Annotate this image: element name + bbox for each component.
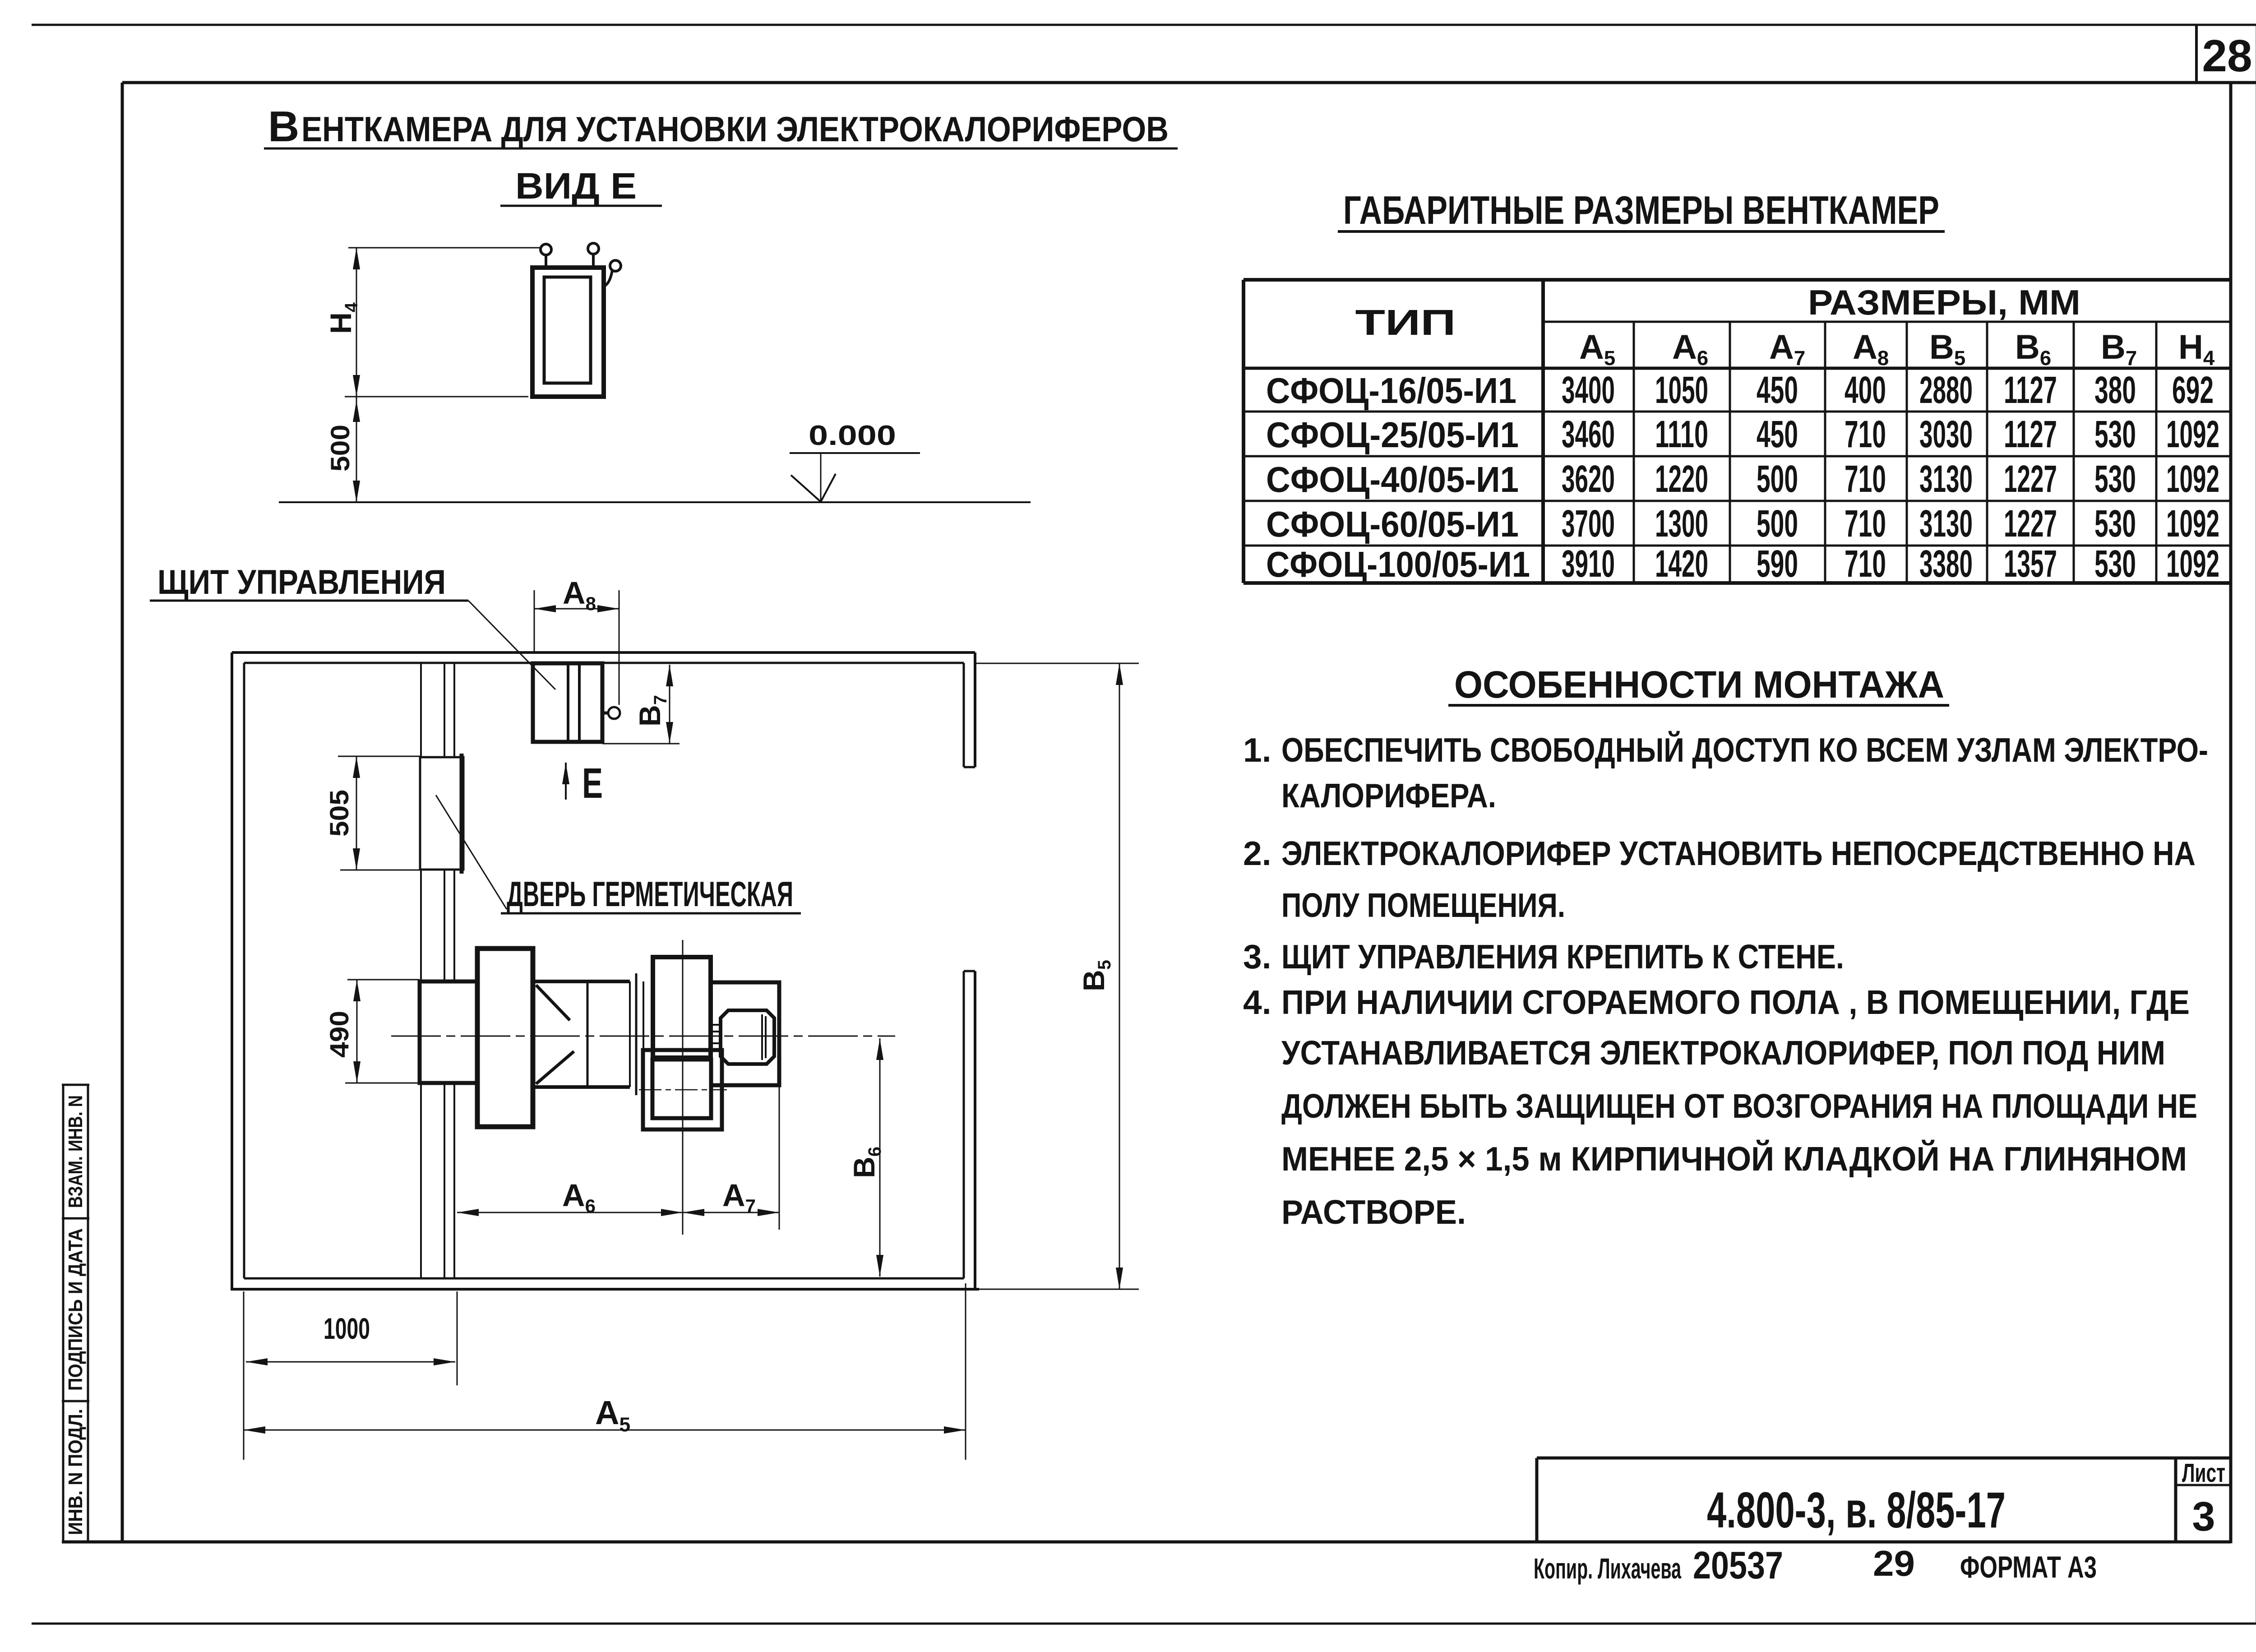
svg-text:3.: 3. (1243, 938, 1271, 976)
svg-text:450: 450 (1757, 413, 1798, 455)
control shield door knob (602, 712, 609, 715)
svg-text:ЭЛЕКТРОКАЛОРИФЕР УСТАНОВИТЬ: ЭЛЕКТРОКАЛОРИФЕР УСТАНОВИТЬ НЕПОСРЕДСТВЕ… (1281, 834, 2196, 872)
svg-text:1357: 1357 (2004, 542, 2057, 585)
svg-text:1420: 1420 (1655, 542, 1708, 585)
heater body bottom line (533, 1085, 630, 1089)
svg-text:590: 590 (1757, 542, 1798, 585)
svg-text:Копир. Лихачева: Копир. Лихачева (1534, 1552, 1681, 1585)
svg-text:710: 710 (1845, 542, 1886, 585)
dimension A5 right extension (965, 1283, 966, 1460)
fan inlet box (653, 957, 711, 1058)
main drawing frame (122, 81, 2256, 84)
svg-text:3620: 3620 (1562, 458, 1615, 500)
svg-text:490: 490 (325, 1011, 354, 1058)
svg-text:710: 710 (1845, 502, 1886, 545)
svg-text:500: 500 (1757, 502, 1798, 545)
dimension B5 line (1119, 663, 1120, 1289)
svg-text:1092: 1092 (2166, 458, 2219, 500)
dimension A5 line (244, 1430, 966, 1431)
svg-text:500: 500 (1757, 458, 1798, 500)
svg-text:1092: 1092 (2166, 542, 2219, 585)
control shield box (533, 663, 602, 742)
heater body top line (533, 980, 630, 983)
svg-text:1.: 1. (1243, 731, 1271, 769)
svg-text:МЕНЕЕ 2,5 × 1,5 м КИРПИЧНОЙ: МЕНЕЕ 2,5 × 1,5 м КИРПИЧНОЙ КЛАДКОЙ НА Г… (1281, 1140, 2187, 1178)
main title underline (264, 148, 1178, 150)
svg-text:1220: 1220 (1655, 458, 1708, 500)
title block list cell divider vertical (2174, 1458, 2177, 1542)
top wall outer line (232, 651, 975, 654)
heater diagonal mark upper (536, 985, 570, 1020)
svg-text:4.: 4. (1243, 983, 1271, 1021)
svg-text:2880: 2880 (1919, 369, 1973, 411)
svg-text:Е: Е (582, 759, 603, 807)
svg-text:ДВЕРЬ ГЕРМЕТИЧЕСКАЯ: ДВЕРЬ ГЕРМЕТИЧЕСКАЯ (507, 874, 793, 914)
svg-text:ЩИТ УПРАВЛЕНИЯ: ЩИТ УПРАВЛЕНИЯ (157, 563, 446, 602)
svg-text:1127: 1127 (2004, 413, 2057, 455)
dimension 490 extension bottom (345, 1083, 420, 1084)
shield label underline (150, 600, 468, 602)
elevation mark arrow V (791, 474, 836, 502)
svg-text:3910: 3910 (1562, 542, 1615, 585)
svg-text:500: 500 (326, 425, 355, 472)
svg-text:400: 400 (1845, 369, 1886, 411)
svg-text:1000: 1000 (324, 1312, 370, 1345)
dimension 1000 left extension (243, 1291, 245, 1460)
svg-text:20537: 20537 (1693, 1544, 1783, 1587)
svg-text:3: 3 (2192, 1494, 2215, 1540)
svg-text:ЩИТ УПРАВЛЕНИЯ КРЕПИТЬ К С: ЩИТ УПРАВЛЕНИЯ КРЕПИТЬ К СТЕНЕ. (1281, 938, 1844, 976)
svg-text:3130: 3130 (1919, 502, 1973, 545)
shield label leader line (468, 601, 555, 689)
svg-text:2.: 2. (1243, 834, 1271, 872)
fan outlet square centerline (639, 1089, 727, 1091)
cabinet bolt 2 (588, 243, 599, 254)
table outer top border (1244, 278, 2231, 282)
svg-text:29: 29 (1873, 1543, 1915, 1583)
svg-text:В: В (268, 102, 299, 151)
cabinet bolt 1 (541, 244, 551, 255)
svg-text:РАЗМЕРЫ, ММ: РАЗМЕРЫ, ММ (1808, 282, 2080, 322)
svg-text:3400: 3400 (1562, 369, 1615, 411)
svg-text:ДОЛЖЕН БЫТЬ ЗАЩИЩЕН ОТ ВОЗ: ДОЛЖЕН БЫТЬ ЗАЩИЩЕН ОТ ВОЗГОРАНИЯ НА ПЛО… (1281, 1087, 2197, 1125)
table header razmery divider (1543, 321, 2231, 323)
svg-text:0.000: 0.000 (809, 420, 896, 451)
sheet outer border bottom line (32, 1623, 2256, 1625)
svg-text:3460: 3460 (1562, 413, 1615, 455)
inlet flange tall rectangle (477, 949, 533, 1127)
svg-text:530: 530 (2094, 413, 2136, 455)
fan casing box (711, 982, 779, 1085)
svg-text:530: 530 (2094, 542, 2136, 585)
table column divider A6 A7 (1729, 322, 1731, 583)
svg-text:4.800-3, в. 8/85-17: 4.800-3, в. 8/85-17 (1707, 1482, 2006, 1538)
door label underline (501, 912, 801, 915)
dimension 1000 right extension (457, 1291, 458, 1385)
motor mount tabs (711, 1024, 721, 1026)
svg-text:ОСОБЕННОСТИ МОНТАЖА: ОСОБЕННОСТИ МОНТАЖА (1454, 663, 1944, 706)
flexible insert lines (629, 981, 631, 1087)
dimension 505 extension bottom (340, 870, 420, 871)
svg-text:1092: 1092 (2166, 502, 2219, 545)
svg-text:505: 505 (325, 790, 354, 837)
table tip column divider (1541, 280, 1545, 583)
table column divider B5 B6 (1986, 322, 1988, 583)
svg-text:СФОЦ-60/05-И1: СФОЦ-60/05-И1 (1266, 504, 1519, 544)
table column divider A8 B5 (1906, 322, 1908, 583)
left wall inner line (243, 663, 245, 1278)
left wall outer line (231, 652, 233, 1291)
title block list cell divider horizontal (2176, 1484, 2231, 1486)
partition wall middle segment (420, 870, 422, 981)
svg-text:СФОЦ-40/05-И1: СФОЦ-40/05-И1 (1266, 459, 1519, 500)
dimension B5 top extension (975, 663, 1139, 664)
table outer bottom border (1244, 581, 2231, 585)
svg-text:3030: 3030 (1919, 413, 1973, 455)
stamp column box right edge (87, 1085, 89, 1542)
svg-text:ИНВ. N ПОДЛ.: ИНВ. N ПОДЛ. (65, 1409, 87, 1535)
dimension H4 and 500 vertical line (356, 248, 357, 502)
table column divider A7 A8 (1824, 322, 1826, 583)
svg-text:1050: 1050 (1655, 369, 1708, 411)
svg-text:1092: 1092 (2166, 413, 2219, 455)
inlet duct box (420, 981, 478, 1083)
svg-text:692: 692 (2172, 369, 2214, 411)
svg-text:ПОЛУ ПОМЕЩЕНИЯ.: ПОЛУ ПОМЕЩЕНИЯ. (1281, 886, 1565, 924)
floor ground line (279, 501, 1031, 503)
dimension 1000 line (246, 1361, 455, 1363)
svg-text:380: 380 (2094, 369, 2136, 411)
heater diagonal mark lower (536, 1051, 574, 1084)
svg-text:ОБЕСПЕЧИТЬ СВОБОДНЫЙ ДОСТУП: ОБЕСПЕЧИТЬ СВОБОДНЫЙ ДОСТУП КО ВСЕМ УЗЛА… (1281, 731, 2208, 769)
dimension 490 extension top (347, 979, 420, 981)
svg-text:СФОЦ-100/05-И1: СФОЦ-100/05-И1 (1266, 544, 1530, 584)
dimension B6 line (879, 1038, 881, 1277)
table row divider 4 (1244, 545, 2231, 547)
svg-text:710: 710 (1845, 413, 1886, 455)
table title underline (1338, 230, 1945, 233)
dimension 505 extension top (338, 756, 420, 757)
svg-text:ФОРМАТ А3: ФОРМАТ А3 (1960, 1550, 2097, 1584)
table column divider B6 B7 (2073, 322, 2075, 583)
elevation mark leader (820, 453, 822, 501)
stamp column divider 1 (62, 1217, 89, 1220)
dimension B7 line (669, 665, 670, 744)
cabinet corner hook bolt (610, 260, 621, 271)
right wall lower segment (974, 971, 976, 1289)
cabinet outer body front view (532, 268, 604, 397)
dimension B5 bottom extension (979, 1289, 1139, 1290)
dimension 505 line (356, 756, 357, 870)
partition wall upper segment (420, 663, 422, 757)
view label underline (500, 205, 662, 207)
fan outlet square outer (643, 1050, 722, 1129)
svg-text:ГАБАРИТНЫЕ РАЗМЕРЫ ВЕНТКАМЕР: ГАБАРИТНЫЕ РАЗМЕРЫ ВЕНТКАМЕР (1343, 188, 1939, 232)
stamp column divider 2 (62, 1400, 89, 1402)
top wall inner line (244, 662, 964, 664)
svg-text:530: 530 (2094, 458, 2136, 500)
svg-text:1227: 1227 (2004, 502, 2057, 545)
dimension A7 right extension (779, 1087, 780, 1230)
bottom wall inner line (244, 1277, 964, 1280)
partition wall lower segment (420, 1083, 422, 1278)
svg-text:УСТАНАВЛИВАЕТСЯ ЭЛЕКТРОКАЛОР: УСТАНАВЛИВАЕТСЯ ЭЛЕКТРОКАЛОРИФЕР, ПОЛ ПО… (1281, 1034, 2165, 1072)
svg-text:ПОДПИСЬ И ДАТА: ПОДПИСЬ И ДАТА (65, 1228, 87, 1391)
table row divider 3 (1244, 500, 2231, 502)
fan outlet square inner (652, 1060, 711, 1118)
heater body divider (587, 981, 589, 1087)
electric motor barrel (721, 1010, 774, 1064)
svg-text:РАСТВОРЕ.: РАСТВОРЕ. (1281, 1193, 1466, 1231)
svg-text:450: 450 (1757, 369, 1798, 411)
svg-text:ВИД Е: ВИД Е (515, 166, 637, 207)
control shield inner dividers (567, 663, 569, 742)
svg-text:ВЗАМ. ИНВ. N: ВЗАМ. ИНВ. N (65, 1095, 87, 1208)
table column divider B7 H4 (2155, 322, 2158, 583)
table outer left border (1242, 280, 1245, 583)
page number box 28 top right (2195, 25, 2198, 83)
dimension 490 line (356, 980, 358, 1083)
svg-text:СФОЦ-25/05-И1: СФОЦ-25/05-И1 (1266, 415, 1519, 455)
dimension A8 extension right (619, 590, 620, 705)
section arrow E (565, 763, 567, 800)
svg-text:28: 28 (2202, 31, 2252, 81)
right wall upper segment (974, 652, 976, 767)
svg-text:1300: 1300 (1655, 502, 1708, 545)
dimension A6 A7 line (457, 1212, 779, 1213)
svg-text:1227: 1227 (2004, 458, 2057, 500)
svg-text:710: 710 (1845, 458, 1886, 500)
stamp column top edge (62, 1084, 89, 1086)
door label leader line (436, 795, 507, 909)
fan vertical centerline (682, 940, 684, 1235)
svg-text:3130: 3130 (1919, 458, 1973, 500)
hermetic door leaf (420, 757, 463, 870)
table row divider 1 (1244, 411, 2231, 413)
svg-text:СФОЦ-16/05-И1: СФОЦ-16/05-И1 (1266, 370, 1516, 411)
title block top line (1537, 1457, 2231, 1460)
cabinet inner panel front view (544, 277, 591, 383)
sheet outer border top line (32, 24, 2256, 26)
svg-text:3380: 3380 (1919, 542, 1973, 585)
stamp column box left edge (62, 1085, 65, 1542)
motor end cap lines (761, 1014, 763, 1060)
svg-text:530: 530 (2094, 502, 2136, 545)
svg-text:3700: 3700 (1562, 502, 1615, 545)
svg-text:ТИП: ТИП (1355, 302, 1456, 342)
dimension H4 top extension line (348, 247, 541, 249)
dimension H4 bottom extension line (345, 396, 528, 398)
svg-text:1127: 1127 (2004, 369, 2057, 411)
svg-text:ЕНТКАМЕРА ДЛЯ УСТАНОВКИ ЭЛЕ: ЕНТКАМЕРА ДЛЯ УСТАНОВКИ ЭЛЕКТРОКАЛОРИФЕР… (301, 109, 1169, 149)
elevation mark shelf line (790, 452, 920, 454)
dimension A8 extension left (534, 590, 535, 653)
svg-text:КАЛОРИФЕРА.: КАЛОРИФЕРА. (1281, 777, 1496, 814)
svg-text:1110: 1110 (1655, 413, 1708, 455)
svg-text:ПРИ НАЛИЧИИ СГОРАЕМОГО ПОЛА: ПРИ НАЛИЧИИ СГОРАЕМОГО ПОЛА , В ПОМЕЩЕНИ… (1281, 983, 2190, 1021)
unit horizontal centerline (391, 1036, 895, 1037)
title block left edge (1535, 1458, 1539, 1542)
dimension A8 line (534, 608, 619, 610)
table header bottom divider (1244, 367, 2231, 370)
bottom wall outer line (232, 1288, 979, 1291)
table column divider A5 A6 (1633, 322, 1635, 583)
notes title underline (1448, 704, 1949, 707)
dimension B7 bottom extension (602, 743, 680, 745)
table row divider 2 (1244, 455, 2231, 458)
svg-text:Лист: Лист (2182, 1458, 2225, 1488)
